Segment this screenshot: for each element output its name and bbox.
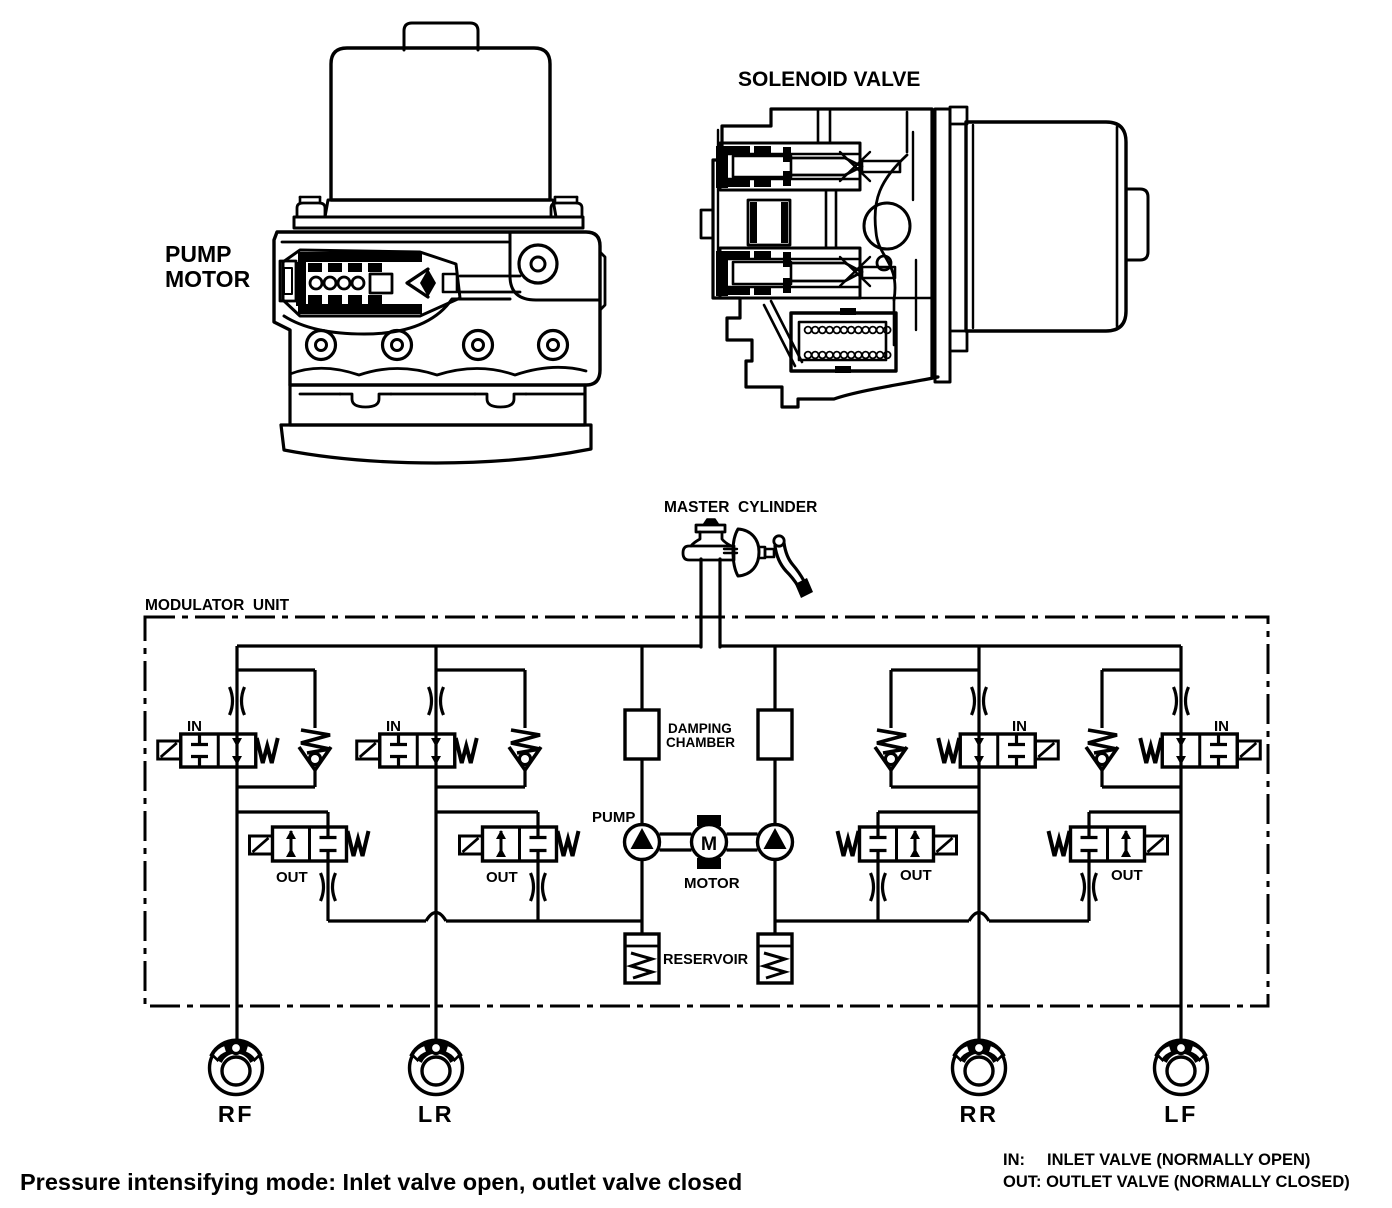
outlet valve RR (OUT): [878, 810, 979, 813]
svg-text:DAMPING: DAMPING: [668, 721, 732, 736]
pump motor base: [281, 425, 591, 463]
pump right: [758, 825, 793, 860]
lower solenoid armature: [720, 248, 860, 298]
svg-text:OUT: OUTLET VALVE (NORMALLY CL: OUT: OUTLET VALVE (NORMALLY CLOSED): [1003, 1173, 1350, 1191]
damping chamber right wire: [773, 646, 776, 710]
svg-text:PUMP: PUMP: [592, 809, 635, 826]
LR supply line: [434, 646, 437, 1042]
outlet valve LR (OUT): [436, 810, 538, 813]
orifice below outlet valve LF (OUT): [1082, 873, 1085, 901]
wheel RR: [953, 1042, 1006, 1095]
orifice below outlet valve RR (OUT): [871, 873, 874, 901]
LF supply line: [1179, 646, 1182, 1042]
master cylinder outlet pipes: [699, 559, 702, 647]
mounting plate: [935, 109, 950, 382]
check valve LR: [436, 668, 525, 671]
body circle detail: [864, 203, 910, 249]
check valve RR: [891, 668, 979, 671]
svg-text:OUT: OUT: [1111, 867, 1143, 884]
outlet valve LF (OUT): [1089, 810, 1181, 813]
RF supply line: [235, 646, 238, 1042]
wire hop over RR line: [969, 913, 989, 922]
pump motor illustration: [165, 23, 605, 463]
inlet valve RR (IN): [960, 734, 1035, 767]
pump motor middle block: [290, 385, 585, 425]
inlet valve LF (IN): [1162, 734, 1237, 767]
orifice RR inlet: [972, 687, 975, 715]
svg-text:OUT: OUT: [900, 867, 932, 884]
svg-text:IN: IN: [187, 718, 202, 735]
check valve LF: [1102, 668, 1181, 671]
orifice LF inlet: [1174, 687, 1177, 715]
RR supply line: [977, 646, 980, 1042]
svg-text:MOTOR: MOTOR: [165, 266, 251, 292]
svg-text:LF: LF: [1164, 1101, 1198, 1127]
inlet valve LR (IN): [380, 734, 455, 767]
svg-text:RR: RR: [960, 1101, 999, 1127]
pump element cross-section: [283, 250, 460, 316]
reservoir left: [625, 934, 659, 983]
bolt holes row: [307, 331, 336, 360]
pump suction wires: [640, 860, 643, 935]
wire hop over LR line: [426, 913, 446, 922]
upper solenoid armature: [720, 143, 860, 190]
orifice RF inlet: [230, 687, 233, 715]
orifice below outlet valve RF (OUT): [321, 873, 324, 901]
wheel LR: [410, 1042, 463, 1095]
svg-text:IN: IN: [386, 718, 401, 735]
return bus right: [775, 919, 969, 922]
orifice below outlet valve LR (OUT): [531, 873, 534, 901]
svg-text:INLET VALVE (NORMALLY OPEN): INLET VALVE (NORMALLY OPEN): [1047, 1151, 1310, 1169]
inlet valve RF (IN): [181, 734, 256, 767]
pump-motor shaft: [660, 832, 692, 835]
svg-text:SOLENOID VALVE: SOLENOID VALVE: [738, 68, 920, 91]
svg-text:IN:: IN:: [1003, 1151, 1025, 1169]
damping chamber right: [758, 710, 792, 759]
damping chamber left wire: [640, 646, 643, 710]
return bus left: [328, 919, 426, 922]
supply bus wire: [237, 644, 701, 647]
svg-text:OUT: OUT: [276, 869, 308, 886]
svg-text:IN: IN: [1214, 718, 1229, 735]
solenoid coil body: [966, 122, 1126, 331]
connector block: [791, 313, 896, 371]
svg-text:IN: IN: [1012, 718, 1027, 735]
motor M: [692, 825, 727, 860]
svg-text:RESERVOIR: RESERVOIR: [663, 952, 749, 968]
wheel RF: [210, 1042, 263, 1095]
svg-text:M: M: [701, 833, 717, 855]
orifice LR inlet: [429, 687, 432, 715]
wheel LF: [1155, 1042, 1208, 1095]
brake pedal: [774, 536, 784, 546]
modulator unit boundary (dashed): [145, 617, 1268, 1006]
svg-text:CHAMBER: CHAMBER: [666, 735, 735, 750]
bolt hole: [519, 245, 557, 283]
master cylinder: [664, 499, 817, 647]
svg-text:PUMP: PUMP: [165, 241, 231, 267]
reservoir right: [758, 934, 792, 983]
svg-text:MODULATOR UNIT: MODULATOR UNIT: [145, 597, 290, 614]
svg-text:LR: LR: [418, 1101, 454, 1127]
solenoid valve illustration: [701, 68, 1148, 407]
damping chamber left: [625, 710, 659, 759]
svg-text:Pressure intensifying mode: In: Pressure intensifying mode: Inlet valve …: [20, 1169, 742, 1195]
check valve RF: [237, 668, 315, 671]
pump left: [625, 825, 660, 860]
svg-text:OUT: OUT: [486, 869, 518, 886]
svg-text:RF: RF: [218, 1101, 254, 1127]
svg-text:MOTOR: MOTOR: [684, 875, 740, 892]
outlet valve RF (OUT): [237, 810, 328, 813]
svg-text:MASTER CYLINDER: MASTER CYLINDER: [664, 499, 817, 516]
